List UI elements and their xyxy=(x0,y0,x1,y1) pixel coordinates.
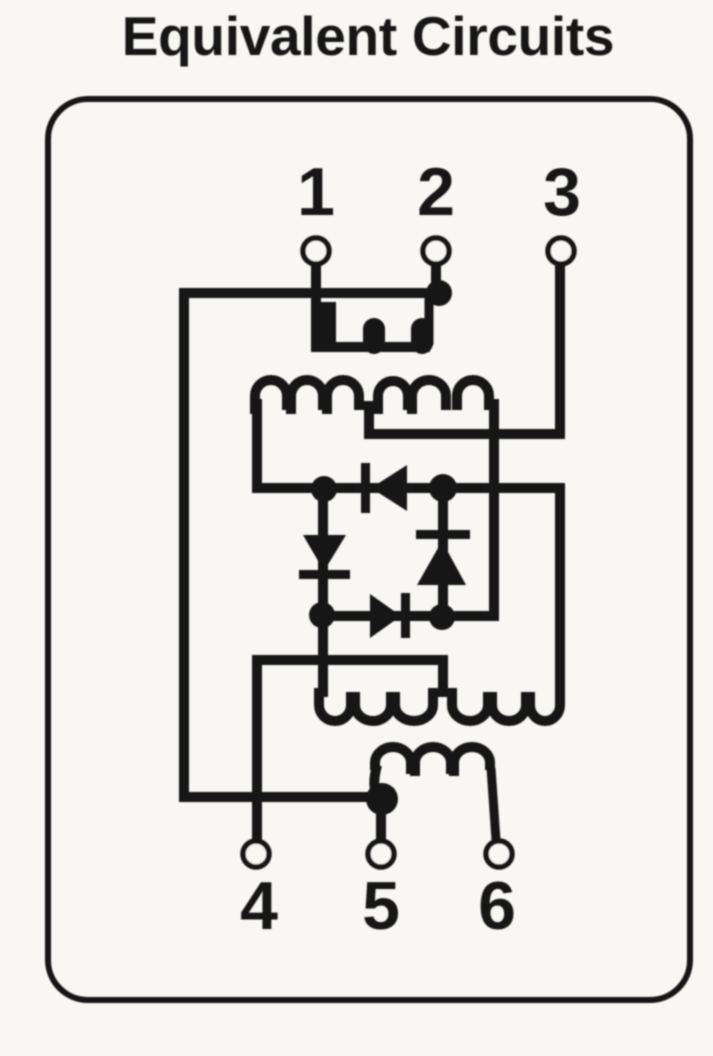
svg-text:6: 6 xyxy=(478,868,516,944)
svg-text:5: 5 xyxy=(362,868,400,944)
svg-text:3: 3 xyxy=(543,154,581,230)
svg-text:4: 4 xyxy=(240,868,278,944)
svg-text:2: 2 xyxy=(417,154,455,230)
svg-text:1: 1 xyxy=(297,154,335,230)
svg-text:Equivalent Circuits: Equivalent Circuits xyxy=(122,5,614,67)
